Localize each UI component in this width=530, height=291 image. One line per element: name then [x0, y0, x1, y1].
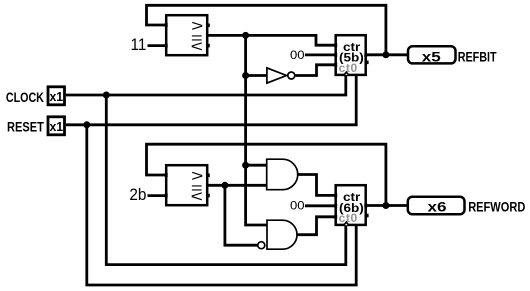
- svg-text:00: 00: [290, 199, 305, 212]
- svg-text:x1: x1: [49, 120, 63, 134]
- port tick U1 input A: [165, 23, 168, 27]
- wire constant 2b to U2 input B: [148, 194, 167, 197]
- svg-text:REFBIT: REFBIT: [458, 49, 497, 65]
- wire constant 11 to U1 input B: [148, 44, 167, 47]
- clock pin marker on ctr5b: [342, 71, 350, 76]
- label REFBIT: [458, 49, 497, 65]
- wire constant 00 to ctr6b input 2: [305, 204, 336, 207]
- AND gate G1: [267, 159, 298, 190]
- wire U1 "=" output to ctr5b input 1: [207, 35, 336, 45]
- wire RESET to ctr5b reset pin: [66, 75, 356, 125]
- junction dot at G1 branch: [242, 162, 249, 169]
- port tick U2 input A: [165, 173, 168, 177]
- svg-text:<: <: [191, 37, 203, 55]
- junction dot REFBIT net: [382, 51, 389, 58]
- wire CLOCK to ctr5b clock pin: [66, 75, 346, 95]
- svg-text:2b: 2b: [129, 185, 146, 204]
- AND gate G2 with inverted lower input: [258, 220, 297, 249]
- svg-text:<: <: [191, 187, 203, 205]
- counter ct0 (5b): [336, 35, 366, 75]
- wire ctr6b output to x6 port: [366, 204, 408, 207]
- svg-text:00: 00: [290, 49, 305, 62]
- svg-text:11: 11: [131, 35, 147, 54]
- constant 00 (upper): [290, 49, 305, 62]
- svg-text:x5: x5: [422, 50, 441, 65]
- wire constant 00 to ctr5b input 2: [305, 54, 336, 57]
- port stub U1 output "<": [207, 44, 210, 48]
- input port RESET x1: [7, 117, 64, 135]
- wire branch to inverter input: [246, 74, 268, 77]
- counter ct0 (6b): [336, 185, 366, 225]
- port stub ctr6b carry output: [366, 214, 369, 218]
- svg-text:x6: x6: [427, 200, 446, 215]
- svg-text:RESET: RESET: [7, 119, 44, 135]
- port stub U2 output "<": [207, 194, 210, 198]
- wire RESET bottom run to ctr6b reset pin: [87, 125, 356, 285]
- wire G2 output to ctr6b input 3: [297, 217, 336, 235]
- port tick U2 input B: [165, 194, 168, 198]
- svg-text:ct0: ct0: [339, 211, 358, 225]
- constant 2b: [129, 185, 146, 204]
- node A junction dot: [242, 32, 249, 39]
- comparator U2: [166, 165, 207, 205]
- input port CLOCK x1: [6, 87, 65, 106]
- wire CLOCK bottom run to ctr6b clock pin: [106, 95, 345, 265]
- label REFWORD: [468, 199, 525, 215]
- wire feedback REFWORD net: from ctr6b output column to comparator U2 input A: [147, 144, 386, 205]
- svg-text:CLOCK: CLOCK: [6, 90, 44, 106]
- constant 00 (lower): [290, 199, 305, 212]
- svg-text:ct0: ct0: [339, 61, 358, 75]
- port ticks ctr5b inputs: [334, 43, 337, 47]
- port stub U1 output ">": [207, 23, 210, 27]
- port stub U2 output ">": [207, 174, 210, 178]
- junction dot at inverter branch: [242, 72, 249, 79]
- comparator U1: [166, 15, 207, 55]
- wire branch down to G2 inverted input: [225, 185, 258, 245]
- port ticks ctr6b inputs: [334, 193, 337, 197]
- wire U2 "=" output to AND gate G1 lower input: [207, 184, 267, 187]
- wire inverter output to ctr5b input 3: [296, 65, 336, 76]
- port tick ctr5b output: [364, 53, 367, 57]
- inverter (NOT gate): [267, 68, 295, 83]
- constant 11: [131, 35, 147, 54]
- wire G1 output to ctr6b input 1: [298, 175, 336, 196]
- clock pin marker on ctr6b: [342, 221, 350, 226]
- output port x6 REFWORD: [408, 197, 465, 215]
- wire feedback REFBIT net: top loop from ctr5b output column over to comparator U1 input A: [147, 5, 386, 55]
- port tick ctr6b output: [364, 203, 367, 207]
- svg-text:REFWORD: REFWORD: [468, 199, 525, 215]
- wire ctr5b output to x5 port: [366, 53, 408, 56]
- junction dot RESET net: [83, 121, 90, 128]
- port tick U1 input B: [165, 43, 168, 47]
- junction dot CLOCK net: [103, 92, 110, 99]
- port stub ctr5b carry output: [366, 60, 369, 64]
- wire vertical trunk from node A down to AND gate G2 upper input: [246, 35, 267, 225]
- output port x5 REFBIT: [408, 46, 456, 65]
- wire trunk branch to G1 upper input: [246, 164, 267, 167]
- junction dot U2 output net: [221, 182, 228, 189]
- svg-text:x1: x1: [49, 90, 63, 104]
- junction dot REFWORD net: [382, 202, 389, 209]
